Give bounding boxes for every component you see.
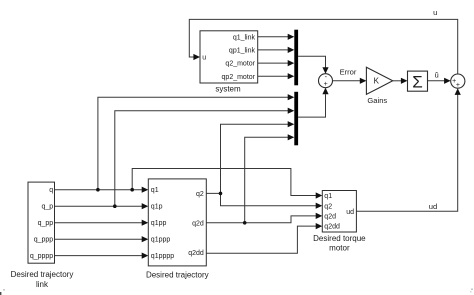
- svg-text:q1pp: q1pp: [151, 220, 167, 227]
- svg-text:q1ppp: q1ppp: [151, 237, 171, 244]
- edge artifact bottom-left: [0, 292, 1, 295]
- svg-text:q_pp: q_pp: [38, 220, 54, 227]
- sum S1 (error): [319, 74, 333, 88]
- wire branch q2d to mux M2 input 4: [245, 137, 289, 223]
- wire torque motor ud output to sum U2 bottom: [356, 95, 457, 212]
- arrowhead into trajectory q1pppp: [142, 253, 149, 259]
- svg-text:q_p: q_p: [42, 204, 54, 211]
- svg-text:ud: ud: [429, 202, 437, 211]
- wire sigma output to sum U2 left: [428, 80, 445, 82]
- wire mux M1 output to sum S1 top: [298, 56, 325, 67]
- wire link q_ppp to trajectory q1ppp: [55, 238, 143, 240]
- svg-text:Desired torque: Desired torque: [313, 234, 366, 243]
- wire system qp2_motor to mux M1: [258, 75, 289, 77]
- wire gain output to sigma block: [393, 80, 402, 82]
- svg-text:û: û: [434, 71, 438, 80]
- svg-text:system: system: [215, 85, 241, 94]
- svg-text:K: K: [374, 77, 380, 86]
- wire trajectory q2dd to torque motor q2dd: [206, 226, 316, 253]
- svg-text:u: u: [433, 8, 437, 17]
- junction dot q2 / mux M2 branch: [219, 192, 223, 196]
- wire link q to trajectory q1: [55, 189, 143, 191]
- svg-text:u: u: [202, 55, 206, 62]
- wire branch q2 to mux M2 input 3: [221, 124, 289, 193]
- wire mux M2 output to sum S1 bottom: [298, 94, 325, 117]
- gain K: [366, 67, 392, 94]
- svg-text:q2: q2: [324, 203, 332, 210]
- arrowhead into torque motor q2dd: [316, 223, 323, 229]
- block system: [200, 31, 258, 83]
- arrowhead qp2_motor into mux M1: [288, 73, 295, 79]
- svg-text:q2_motor: q2_motor: [225, 61, 255, 68]
- svg-text:q2dd: q2dd: [188, 250, 204, 257]
- wire trajectory q2d to torque motor q2d: [206, 216, 316, 223]
- arrowhead into torque motor q1: [316, 192, 323, 198]
- svg-text:+: +: [456, 82, 460, 89]
- svg-text:q2: q2: [196, 191, 204, 198]
- svg-text:q_pppp: q_pppp: [30, 253, 53, 260]
- wire system q1_link to mux M1: [258, 36, 289, 38]
- wire link q_pp to trajectory q1pp: [55, 222, 143, 224]
- junction dot q2d / mux M2 branch: [243, 221, 247, 225]
- arrowhead into mux M2 input 3: [288, 121, 295, 127]
- wire system qp1_link to mux M1: [258, 49, 289, 51]
- junction dot q / mux M2 branch: [96, 188, 100, 192]
- block Desired trajectory: [148, 179, 206, 266]
- sigma block U1: [408, 71, 428, 92]
- arrowhead into trajectory q1p: [142, 203, 149, 209]
- arrowhead q1_link into mux M1: [288, 34, 295, 40]
- wire trajectory q2 to torque motor q2: [206, 193, 316, 205]
- arrowhead into trajectory q1pp: [142, 220, 149, 226]
- svg-text:qp2_motor: qp2_motor: [222, 74, 256, 81]
- arrowhead into torque motor q2: [316, 203, 323, 209]
- wire link q_pppp to trajectory q1pppp: [55, 255, 143, 257]
- arrowhead qp1_link into mux M1: [288, 47, 295, 53]
- arrowhead into sum U2 left: [444, 78, 451, 84]
- arrowhead into mux M2 input 1: [288, 94, 295, 100]
- sum U2 (output): [451, 74, 465, 89]
- svg-text:link: link: [36, 280, 49, 289]
- svg-text:q1_link: q1_link: [233, 34, 256, 41]
- svg-text:Desired trajectory: Desired trajectory: [11, 270, 74, 279]
- arrowhead ud into sum U2 bottom: [455, 88, 461, 95]
- junction dot q / torque q1 branch: [130, 188, 134, 192]
- arrowhead into gain: [360, 78, 367, 84]
- wire link q_p to trajectory q1p: [55, 205, 143, 207]
- arrowhead into system u input: [193, 54, 200, 60]
- svg-text:q_ppp: q_ppp: [34, 237, 54, 244]
- wire branch q_p to mux M2 input 2: [115, 111, 288, 207]
- arrowhead into mux M2 input 2: [288, 108, 295, 114]
- svg-text:q1pppp: q1pppp: [151, 253, 174, 260]
- wire u feedback from sum U2 top to system input: [189, 19, 457, 74]
- svg-text:q2dd: q2dd: [324, 224, 340, 231]
- block Desired trajectory link: [28, 182, 55, 263]
- arrowhead into sigma block: [401, 78, 408, 84]
- svg-text:q1p: q1p: [151, 204, 163, 211]
- svg-text:Desired trajectory: Desired trajectory: [146, 271, 209, 280]
- arrowhead into trajectory q1ppp: [142, 236, 149, 242]
- svg-text:q1: q1: [151, 187, 159, 194]
- svg-text:motor: motor: [329, 244, 350, 253]
- wire q branch to torque motor q1: [132, 169, 316, 196]
- svg-text:q: q: [49, 187, 53, 194]
- wire sum S1 output to gain: [333, 80, 361, 82]
- svg-text:qp1_link: qp1_link: [229, 48, 256, 55]
- arrowhead into torque motor q2d: [316, 213, 323, 219]
- arrowhead into trajectory q1: [142, 187, 149, 193]
- arrowhead q2_motor into mux M1: [288, 60, 295, 66]
- svg-text:Error: Error: [340, 68, 357, 77]
- edge artifact bottom-right: [471, 289, 473, 291]
- svg-text:Σ: Σ: [412, 73, 423, 92]
- svg-text:Gains: Gains: [367, 96, 387, 105]
- junction dot q_p / mux M2 branch: [113, 204, 117, 208]
- wire system q2_motor to mux M1: [258, 62, 289, 64]
- svg-text:ud: ud: [346, 209, 354, 216]
- svg-text:+: +: [324, 81, 328, 88]
- svg-text:q2d: q2d: [324, 214, 336, 221]
- arrowhead into mux M2 input 4: [288, 134, 295, 140]
- svg-text:q1: q1: [324, 193, 332, 200]
- mux M2: [294, 92, 298, 146]
- wire branch q to mux M2 input 1: [98, 97, 288, 190]
- block Desired torque motor: [322, 191, 356, 233]
- mux M1: [294, 30, 298, 86]
- arrowhead into sum S1 top: [322, 67, 328, 74]
- svg-text:q2d: q2d: [192, 220, 204, 227]
- arrowhead into sum S1 bottom: [322, 88, 328, 95]
